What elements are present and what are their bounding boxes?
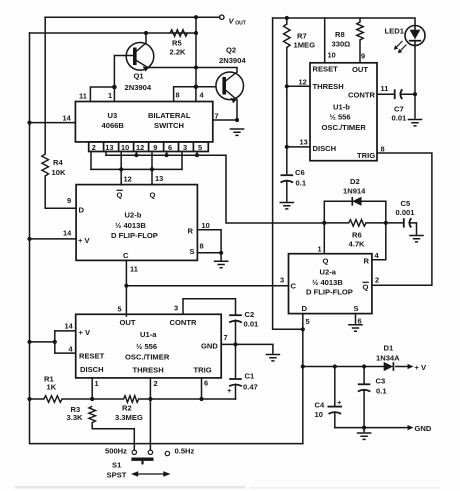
- svg-text:1: 1: [95, 379, 99, 388]
- svg-text:1: 1: [318, 245, 322, 254]
- svg-text:10: 10: [121, 143, 129, 152]
- svg-text:9: 9: [67, 196, 71, 205]
- svg-text:4.7K: 4.7K: [349, 240, 366, 249]
- svg-text:10: 10: [328, 51, 336, 60]
- svg-text:½ 4013B: ½ 4013B: [115, 221, 146, 230]
- svg-text:S: S: [354, 304, 359, 313]
- svg-text:½ 4013B: ½ 4013B: [312, 278, 343, 287]
- svg-text:2: 2: [154, 379, 158, 388]
- svg-text:U3: U3: [108, 111, 118, 120]
- svg-text:C5: C5: [401, 199, 411, 208]
- svg-text:C: C: [291, 282, 297, 291]
- svg-text:4066B: 4066B: [102, 121, 125, 130]
- svg-text:3.3MEG: 3.3MEG: [115, 413, 143, 422]
- svg-text:3: 3: [183, 143, 187, 152]
- svg-text:R: R: [364, 257, 370, 266]
- svg-text:C7: C7: [394, 105, 404, 114]
- svg-text:0.01: 0.01: [392, 114, 408, 123]
- svg-text:GND: GND: [201, 342, 218, 351]
- svg-text:R8: R8: [335, 30, 345, 39]
- svg-text:Q2: Q2: [226, 46, 236, 55]
- svg-text:11: 11: [381, 84, 389, 93]
- svg-text:Q: Q: [150, 191, 156, 200]
- svg-text:R2: R2: [122, 404, 132, 413]
- svg-text:0.47: 0.47: [243, 383, 258, 392]
- svg-text:7: 7: [224, 333, 228, 342]
- svg-text:C: C: [123, 251, 129, 260]
- svg-text:BILATERAL: BILATERAL: [148, 111, 191, 120]
- svg-text:½ 556: ½ 556: [136, 342, 157, 351]
- svg-text:13: 13: [300, 138, 308, 147]
- svg-text:Q: Q: [117, 191, 123, 200]
- svg-text:RESET: RESET: [79, 352, 105, 361]
- svg-text:TRIG: TRIG: [357, 151, 375, 160]
- svg-text:C6: C6: [295, 168, 305, 177]
- svg-text:CONTR: CONTR: [170, 318, 198, 327]
- svg-text:7: 7: [215, 112, 219, 121]
- svg-text:+: +: [337, 398, 342, 407]
- svg-text:D FLIP-FLOP: D FLIP-FLOP: [306, 288, 353, 297]
- svg-text:OUT: OUT: [120, 318, 136, 327]
- svg-text:GND: GND: [415, 424, 432, 433]
- svg-text:2: 2: [375, 276, 379, 285]
- svg-text:6: 6: [168, 143, 172, 152]
- svg-text:D1: D1: [384, 344, 394, 353]
- svg-text:U1-b: U1-b: [333, 103, 350, 112]
- svg-text:12: 12: [299, 78, 307, 87]
- svg-text:R4: R4: [53, 158, 63, 167]
- svg-text:0.1: 0.1: [296, 179, 307, 188]
- svg-text:1N34A: 1N34A: [376, 354, 400, 363]
- svg-text:5: 5: [118, 305, 122, 314]
- svg-text:TRIG: TRIG: [194, 366, 212, 375]
- svg-text:U1-a: U1-a: [140, 330, 157, 339]
- svg-text:2N3904: 2N3904: [125, 83, 152, 92]
- svg-text:+: +: [227, 386, 232, 395]
- svg-text:3.3K: 3.3K: [67, 413, 84, 422]
- svg-text:13: 13: [105, 143, 113, 152]
- svg-text:R: R: [188, 227, 194, 236]
- svg-text:D: D: [79, 206, 85, 215]
- svg-text:+ V: + V: [415, 363, 428, 372]
- svg-text:500Hz: 500Hz: [105, 447, 127, 456]
- svg-text:1: 1: [108, 91, 112, 100]
- svg-text:1MEG: 1MEG: [294, 41, 316, 50]
- svg-text:R6: R6: [352, 231, 362, 240]
- svg-text:THRESH: THRESH: [133, 366, 164, 375]
- svg-text:S1: S1: [112, 461, 122, 470]
- svg-text:6: 6: [358, 317, 362, 326]
- svg-text:THRESH: THRESH: [313, 82, 344, 91]
- svg-text:C2: C2: [245, 310, 255, 319]
- svg-text:SWITCH: SWITCH: [154, 121, 184, 130]
- svg-text:OUT: OUT: [352, 65, 368, 74]
- svg-text:11: 11: [130, 265, 138, 274]
- svg-text:3: 3: [280, 276, 284, 285]
- svg-text:+ V: + V: [78, 236, 91, 245]
- svg-text:10: 10: [202, 221, 210, 230]
- svg-text:C4: C4: [315, 401, 325, 410]
- svg-text:10K: 10K: [52, 168, 66, 177]
- svg-text:13: 13: [155, 174, 163, 183]
- svg-text:U2-b: U2-b: [125, 211, 142, 220]
- svg-text:OUT: OUT: [235, 21, 246, 27]
- svg-text:12: 12: [136, 143, 144, 152]
- svg-text:14: 14: [63, 114, 72, 123]
- svg-text:0.5Hz: 0.5Hz: [175, 447, 195, 456]
- svg-text:1N914: 1N914: [343, 187, 366, 196]
- svg-text:½ 556: ½ 556: [330, 113, 351, 122]
- svg-text:OSC./TIMER: OSC./TIMER: [322, 123, 367, 132]
- svg-text:12: 12: [124, 175, 132, 184]
- svg-text:9: 9: [361, 52, 365, 61]
- svg-text:C3: C3: [376, 377, 386, 386]
- svg-text:DISCH: DISCH: [80, 365, 104, 374]
- svg-text:5: 5: [306, 317, 310, 326]
- svg-text:2N3904: 2N3904: [219, 56, 246, 65]
- svg-text:10: 10: [315, 410, 323, 419]
- svg-text:6: 6: [204, 379, 208, 388]
- svg-text:9: 9: [153, 143, 157, 152]
- svg-text:Q1: Q1: [134, 72, 145, 81]
- svg-text:S: S: [190, 247, 195, 256]
- svg-text:Q: Q: [323, 257, 329, 266]
- svg-text:5: 5: [198, 143, 202, 152]
- svg-text:3: 3: [174, 304, 178, 313]
- svg-text:0.001: 0.001: [396, 208, 416, 217]
- svg-text:14: 14: [63, 229, 72, 238]
- svg-text:0.01: 0.01: [244, 320, 260, 329]
- svg-text:2: 2: [92, 143, 96, 152]
- svg-text:330Ω: 330Ω: [332, 40, 351, 49]
- svg-text:+ V: + V: [79, 328, 92, 337]
- svg-text:SPST: SPST: [107, 471, 127, 480]
- svg-text:2.2K: 2.2K: [170, 48, 187, 57]
- svg-text:8: 8: [176, 91, 180, 100]
- svg-text:R7: R7: [297, 32, 307, 41]
- svg-text:LED1: LED1: [385, 27, 405, 36]
- svg-text:RESET: RESET: [313, 65, 339, 74]
- svg-text:14: 14: [65, 322, 74, 331]
- svg-text:U2-a: U2-a: [320, 268, 337, 277]
- svg-text:D: D: [302, 304, 308, 313]
- svg-text:8: 8: [381, 145, 385, 154]
- svg-text:8: 8: [200, 242, 204, 251]
- svg-text:R5: R5: [172, 39, 182, 48]
- svg-text:C1: C1: [245, 372, 255, 381]
- svg-text:DISCH: DISCH: [313, 144, 337, 153]
- svg-text:Q: Q: [363, 283, 369, 292]
- svg-text:D2: D2: [350, 177, 360, 186]
- svg-text:OSC./TIMER: OSC./TIMER: [125, 353, 170, 362]
- svg-text:11: 11: [79, 92, 87, 101]
- svg-text:1K: 1K: [47, 383, 57, 392]
- svg-text:D FLIP-FLOP: D FLIP-FLOP: [111, 231, 158, 240]
- svg-text:CONTR: CONTR: [348, 91, 376, 100]
- svg-text:0.1: 0.1: [376, 387, 387, 396]
